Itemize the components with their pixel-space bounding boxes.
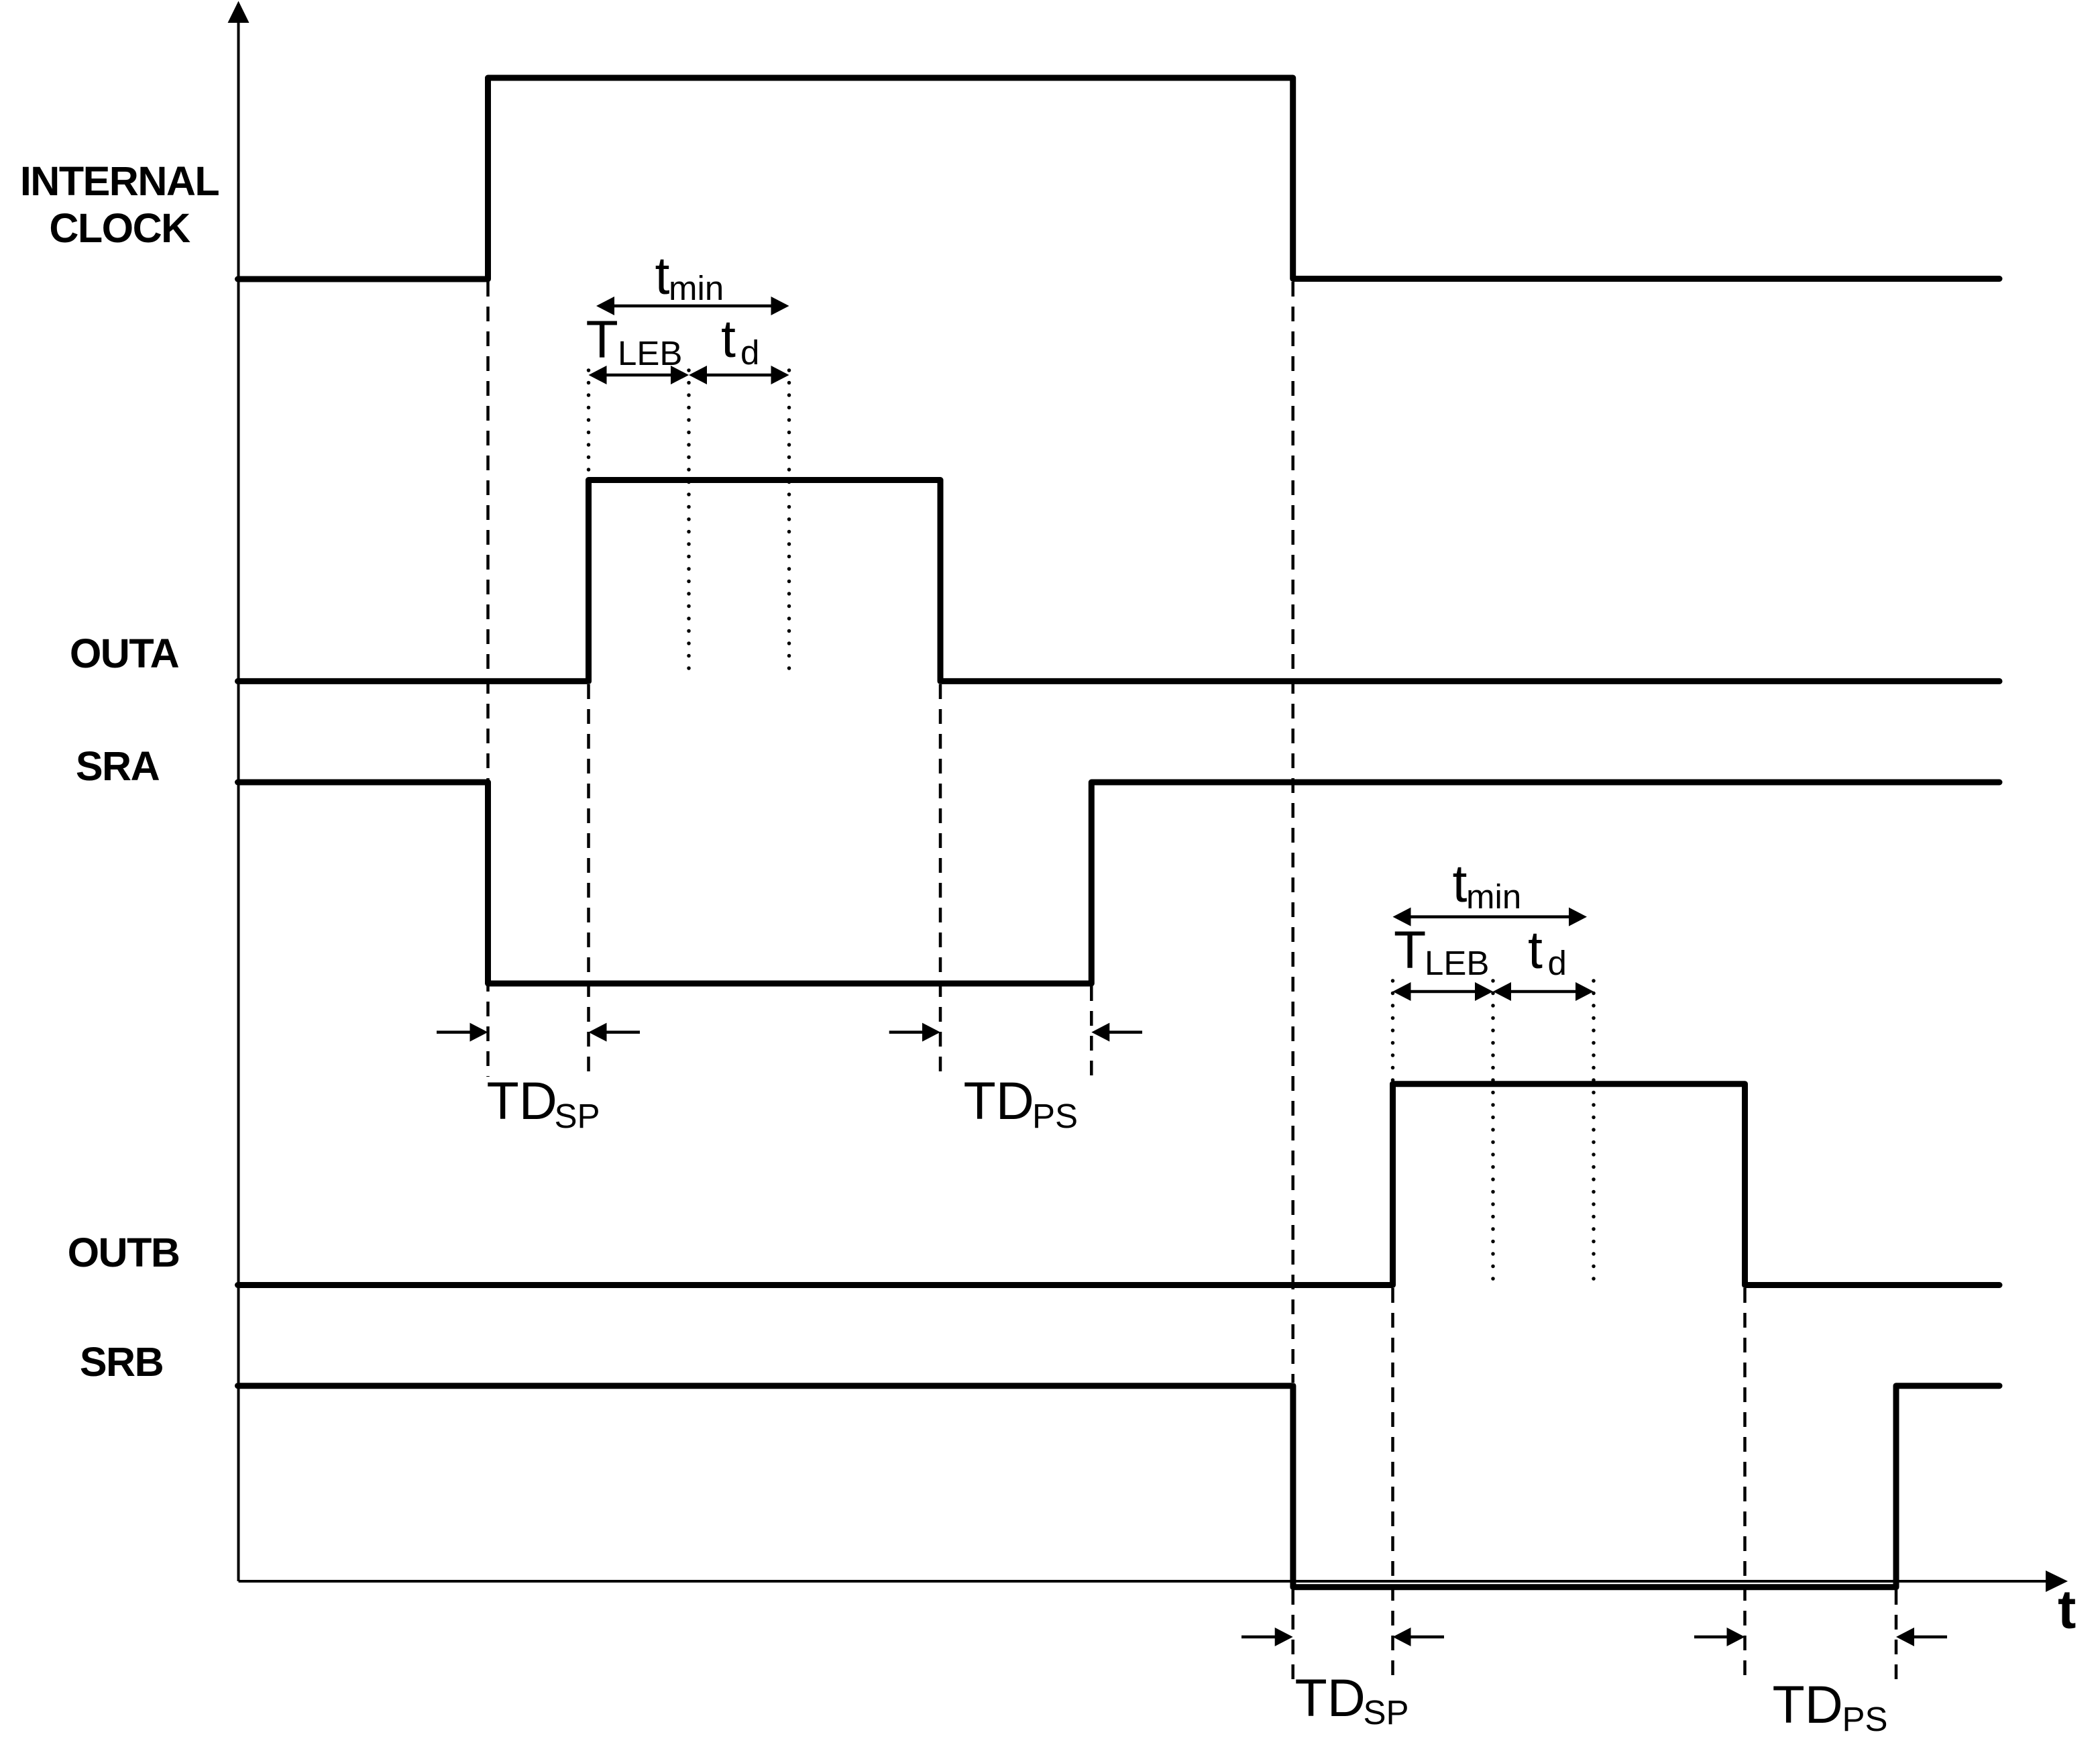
svg-text:INTERNAL: INTERNAL — [20, 158, 219, 204]
TLEB label A — [586, 309, 683, 372]
dotted guide B at OUTB rise x=2076.5 — [1391, 981, 1395, 1082]
svg-text:OUTB: OUTB — [68, 1230, 180, 1275]
time axis — [239, 1570, 2068, 1592]
svg-text:min: min — [669, 269, 724, 307]
td arrow A — [689, 366, 789, 384]
dashed guide at OUTB rising edge x=2076.5 — [1391, 1288, 1394, 1681]
label INTERNAL CLOCK — [20, 158, 219, 251]
dotted guide A at OUTA rise x=877.5 — [587, 370, 591, 478]
svg-text:T: T — [586, 309, 618, 369]
TDPS arrow A right-pointing — [889, 1023, 940, 1042]
svg-text:TD: TD — [964, 1071, 1034, 1130]
TLEB arrow B — [1393, 982, 1494, 1001]
dashed guide at OUTA falling edge x=1402 — [939, 684, 942, 1077]
dotted guide A at td end x=1176.5 — [787, 370, 791, 679]
TDPS arrow B right-pointing — [1694, 1628, 1745, 1646]
dashed guide at OUTB falling edge x=2601.5 — [1743, 1288, 1747, 1681]
dashed guide at SRB rising edge x=2827 — [1895, 1590, 1898, 1681]
svg-text:TD: TD — [1295, 1668, 1366, 1727]
svg-text:SP: SP — [1364, 1693, 1409, 1731]
TDPS arrow A left-pointing — [1091, 1023, 1142, 1042]
dotted guide B at td end x=2376 — [1592, 981, 1596, 1283]
svg-text:d: d — [1548, 944, 1567, 982]
tmin label B — [1453, 853, 1522, 916]
svg-text:LEB: LEB — [618, 334, 682, 372]
OUTB waveform — [238, 1084, 2000, 1285]
TDPS label B — [1773, 1674, 1888, 1738]
OUTA waveform — [238, 480, 2000, 682]
dotted guide A at TLEB end x=1027 — [687, 370, 691, 679]
svg-text:SRB: SRB — [80, 1339, 163, 1385]
dotted guide B at TLEB end x=2226 — [1491, 981, 1495, 1283]
td arrow B — [1493, 982, 1594, 1001]
tmin arrow A — [596, 297, 789, 315]
tmin label A — [655, 246, 724, 307]
internal clock waveform — [238, 78, 2000, 279]
svg-text:t: t — [1528, 920, 1543, 979]
TDSP arrow A — [437, 1023, 488, 1042]
svg-text:CLOCK: CLOCK — [49, 205, 190, 251]
svg-text:LEB: LEB — [1425, 944, 1489, 982]
TDSP label A — [487, 1071, 600, 1135]
tmin arrow B — [1393, 908, 1588, 926]
svg-text:TD: TD — [1773, 1674, 1843, 1734]
svg-text:TD: TD — [487, 1071, 557, 1130]
TLEB label B — [1394, 920, 1489, 982]
TDSP arrow B right-pointing — [1241, 1628, 1293, 1646]
dashed guide at clock falling edge x=1927.7 upper part — [1291, 282, 1294, 1383]
TDSP arrow A left-pointing — [589, 1023, 641, 1042]
SRB waveform — [238, 1386, 2000, 1587]
dashed guide at OUTA rising edge x=877.5 — [587, 684, 590, 1077]
svg-text:t: t — [2058, 1579, 2076, 1640]
dashed guide at clock rising edge x=727.5 — [486, 282, 490, 1077]
svg-text:d: d — [740, 333, 759, 372]
svg-text:PS: PS — [1032, 1097, 1078, 1135]
svg-text:SRA: SRA — [76, 743, 160, 789]
TDPS arrow B left-pointing — [1896, 1628, 1947, 1646]
TDSP arrow B left-pointing — [1393, 1628, 1445, 1646]
td label B — [1528, 920, 1567, 982]
svg-text:PS: PS — [1842, 1700, 1888, 1738]
td label A — [721, 309, 759, 372]
svg-text:T: T — [1394, 920, 1426, 979]
svg-text:t: t — [1453, 853, 1468, 913]
svg-text:t: t — [655, 246, 670, 305]
TLEB arrow A — [589, 366, 689, 384]
y axis — [228, 1, 250, 1582]
svg-text:OUTA: OUTA — [70, 631, 179, 676]
SRA waveform — [238, 782, 2000, 983]
TDPS label A — [964, 1071, 1079, 1135]
dashed guide at clock falling edge x=1927.7 lower part — [1291, 1590, 1294, 1681]
dashed guide at SRA rising edge x=1627 — [1090, 986, 1093, 1077]
TDSP label B — [1295, 1668, 1409, 1731]
svg-text:SP: SP — [555, 1097, 600, 1135]
svg-text:t: t — [721, 309, 736, 368]
svg-text:min: min — [1466, 877, 1521, 916]
